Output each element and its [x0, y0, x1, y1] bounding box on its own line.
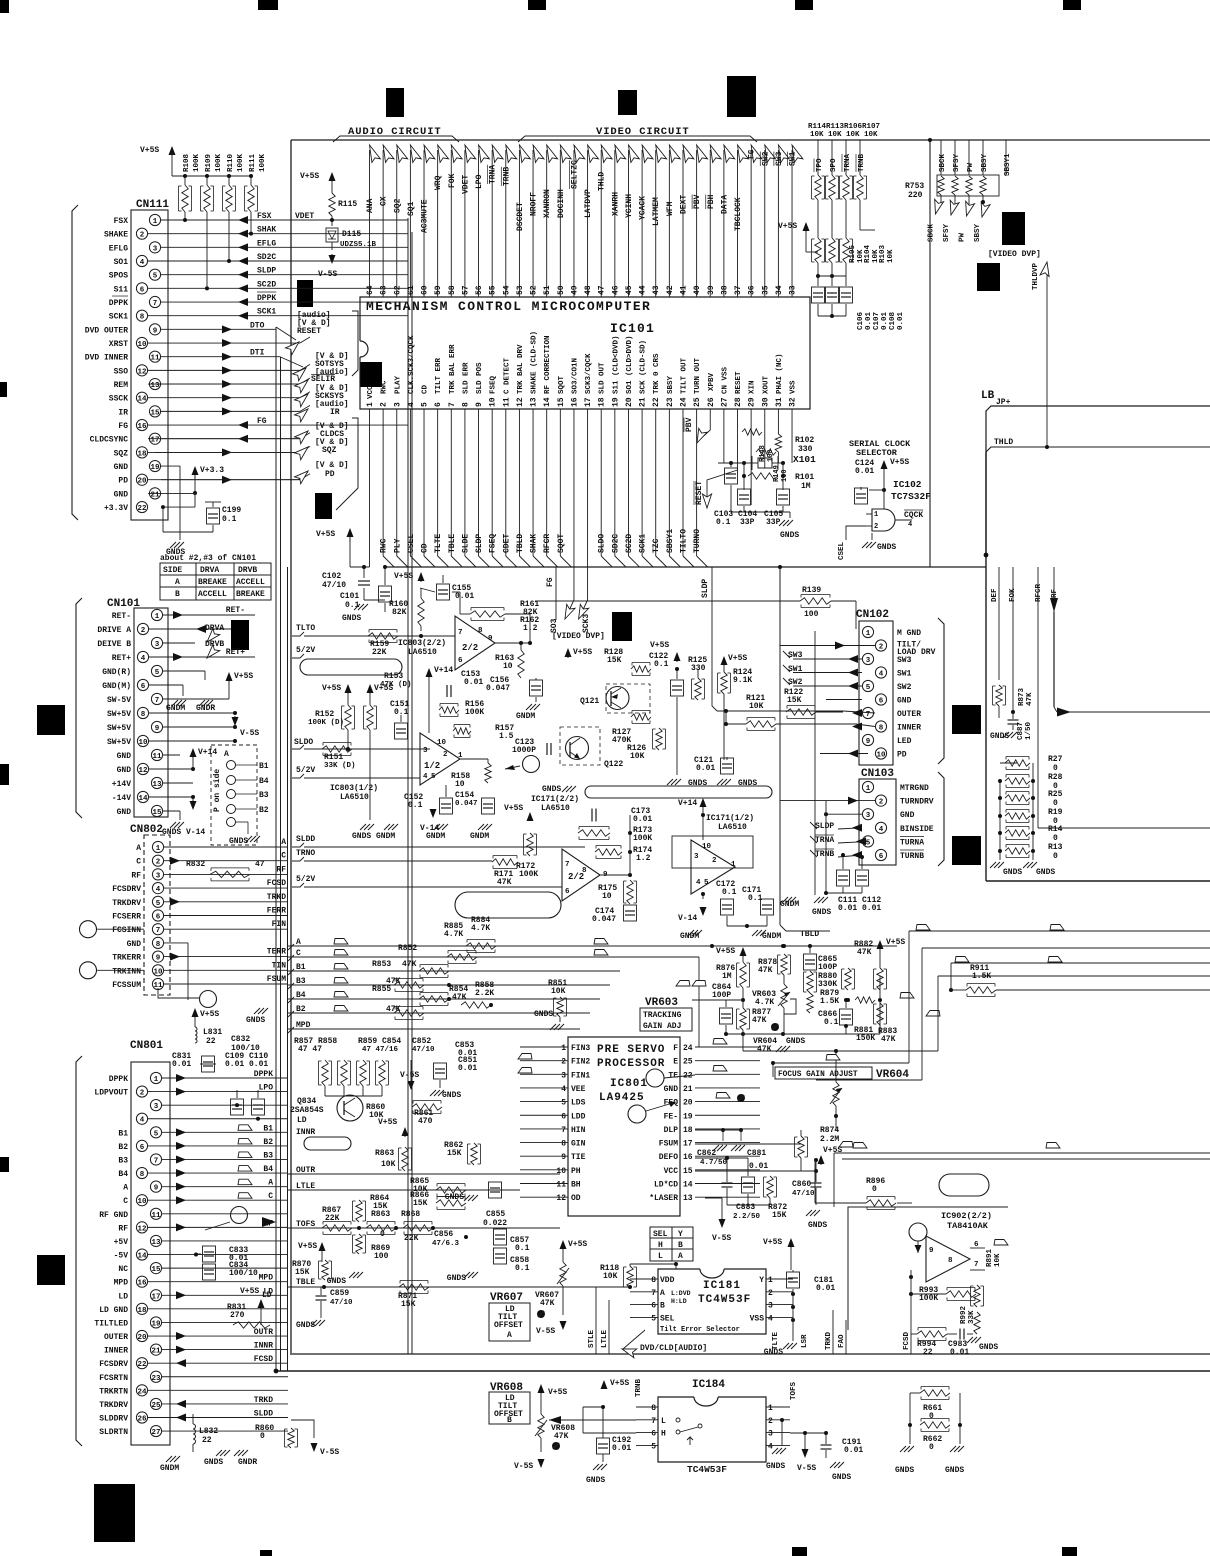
svg-text:14: 14 — [683, 1181, 693, 1190]
svg-text:MPD: MPD — [259, 1274, 274, 1283]
svg-text:11: 11 — [152, 753, 162, 761]
svg-text:14: 14 — [138, 795, 148, 803]
svg-text:RWC: RWC — [380, 538, 389, 553]
svg-text:24: 24 — [137, 1388, 147, 1396]
svg-text:VDET: VDET — [461, 175, 470, 194]
svg-text:V+5S: V+5S — [322, 684, 341, 693]
svg-text:1.5K: 1.5K — [972, 972, 991, 981]
svg-text:Q834: Q834 — [297, 1097, 316, 1106]
power V+5S at VCC — [349, 532, 351, 542]
svg-text:62: 62 — [393, 285, 402, 295]
svg-text:XIN: XIN — [749, 380, 757, 394]
svg-text:SO1: SO1 — [114, 258, 129, 267]
ground GNDS IC181 — [783, 1343, 789, 1349]
svg-text:4: 4 — [879, 826, 884, 834]
svg-text:RF CORRECTION: RF CORRECTION — [544, 335, 552, 394]
svg-text:OUTR: OUTR — [254, 1328, 273, 1337]
svg-text:V-5S: V-5S — [536, 1327, 555, 1336]
svg-text:VR604: VR604 — [876, 1069, 909, 1081]
svg-text:RFCR: RFCR — [543, 534, 552, 553]
svg-text:LDD: LDD — [571, 1112, 586, 1121]
resistor R151 33K — [322, 746, 352, 752]
svg-text:GND: GND — [664, 1085, 679, 1094]
svg-text:3: 3 — [561, 1071, 566, 1080]
svg-text:B: B — [678, 1241, 683, 1250]
svg-text:R102: R102 — [795, 436, 814, 445]
svg-text:33K (D): 33K (D) — [324, 762, 356, 770]
ground GNDS Q122 — [562, 786, 568, 792]
svg-text:10K: 10K — [551, 987, 566, 996]
svg-text:2: 2 — [380, 402, 389, 407]
svg-text:3: 3 — [154, 1103, 159, 1111]
test point circle below CN802 — [200, 991, 217, 1008]
svg-text:TRNA: TRNA — [489, 165, 498, 184]
resistors R661 R662 0 0 — [920, 1390, 950, 1396]
svg-text:SBSY: SBSY — [974, 223, 982, 242]
svg-text:FCSRTN: FCSRTN — [99, 1374, 128, 1383]
capacitor C104 33P — [738, 489, 751, 505]
svg-text:TERR: TERR — [267, 948, 286, 957]
svg-text:GNDS: GNDS — [542, 785, 561, 794]
svg-text:6: 6 — [141, 683, 146, 691]
svg-text:SFSY: SFSY — [943, 223, 951, 242]
svg-text:NROFF: NROFF — [530, 192, 539, 216]
wire pin1 VCC — [369, 409, 371, 567]
svg-text:E: E — [673, 1058, 678, 1067]
ic IC902 area box — [848, 1207, 1008, 1240]
svg-text:GNDM: GNDM — [166, 704, 185, 713]
svg-text:0: 0 — [1053, 764, 1058, 773]
svg-text:15: 15 — [150, 409, 160, 417]
svg-text:LPO: LPO — [259, 1084, 274, 1093]
svg-text:R13: R13 — [1048, 843, 1063, 852]
svg-text:12: 12 — [138, 767, 148, 775]
test point circle IC902 — [909, 1223, 927, 1241]
svg-text:13: 13 — [683, 1194, 693, 1203]
svg-text:TURNB: TURNB — [900, 852, 924, 861]
svg-text:DVD INNER: DVD INNER — [85, 354, 128, 363]
svg-text:R101: R101 — [795, 473, 814, 482]
power V+5S INNR — [404, 1131, 406, 1137]
svg-text:B3: B3 — [263, 1151, 273, 1160]
svg-text:L832: L832 — [199, 1427, 218, 1436]
svg-text:TZC: TZC — [652, 538, 661, 553]
svg-text:2: 2 — [879, 644, 884, 652]
svg-text:GNDS: GNDS — [352, 832, 371, 841]
svg-text:SCK3: SCK3 — [582, 614, 591, 633]
svg-text:43: 43 — [652, 285, 661, 295]
svg-text:A: A — [678, 1252, 683, 1261]
svg-text:about #2,#3 of CN101: about #2,#3 of CN101 — [160, 554, 256, 563]
ground GNDS IC102 — [871, 533, 873, 540]
svg-text:UDZS5.1B: UDZS5.1B — [340, 241, 377, 249]
svg-text:1: 1 — [366, 402, 375, 407]
svg-text:DRIVE A: DRIVE A — [97, 626, 131, 635]
svg-text:THLD: THLD — [598, 172, 607, 191]
svg-text:CD: CD — [422, 384, 430, 394]
svg-text:2: 2 — [561, 1058, 566, 1067]
svg-text:SLD OUT: SLD OUT — [599, 362, 607, 394]
svg-text:RF GND: RF GND — [99, 1211, 128, 1220]
svg-text:R151: R151 — [324, 753, 343, 762]
resistor R872 15K — [767, 1176, 773, 1198]
svg-text:SLD ERR: SLD ERR — [462, 362, 470, 394]
svg-text:330: 330 — [798, 445, 813, 454]
svg-text:C101: C101 — [340, 592, 359, 601]
svg-text:TC4W53F: TC4W53F — [687, 1464, 727, 1475]
svg-text:V+14: V+14 — [434, 666, 453, 675]
svg-text:7: 7 — [153, 300, 158, 308]
svg-text:[VIDEO DVP]: [VIDEO DVP] — [988, 250, 1041, 259]
svg-text:1: 1 — [768, 1276, 773, 1285]
svg-text:47/6.3: 47/6.3 — [432, 1240, 460, 1248]
wires pullups down to signals — [184, 212, 186, 220]
svg-text:7: 7 — [565, 861, 570, 869]
svg-text:13: 13 — [530, 397, 539, 407]
svg-text:4: 4 — [879, 671, 884, 679]
dashed box P on side — [211, 745, 257, 845]
wire vertical trunk x930 — [929, 140, 931, 567]
svg-text:10: 10 — [489, 397, 498, 407]
ground GNDS under C860 — [806, 1210, 812, 1216]
svg-text:SSCK: SSCK — [109, 395, 128, 404]
svg-text:GNDS: GNDS — [990, 732, 1009, 741]
svg-text:4.7K: 4.7K — [755, 998, 774, 1007]
svg-text:0.1: 0.1 — [654, 660, 669, 669]
svg-text:C860: C860 — [792, 1180, 811, 1189]
svg-text:SBSY: SBSY — [981, 153, 989, 172]
wires IC902 — [910, 1270, 912, 1340]
svg-text:20: 20 — [137, 478, 147, 486]
svg-text:GNDM: GNDM — [160, 1464, 179, 1473]
svg-text:B1: B1 — [263, 1124, 273, 1133]
svg-text:15K: 15K — [607, 656, 622, 665]
svg-text:6: 6 — [140, 286, 145, 294]
svg-text:A: A — [507, 1331, 512, 1340]
svg-text:SD2C: SD2C — [611, 534, 620, 553]
svg-text:47K: 47K — [554, 1432, 569, 1441]
svg-text:100: 100 — [374, 1252, 389, 1261]
svg-text:0.1: 0.1 — [824, 1018, 839, 1027]
svg-text:R149: R149 — [773, 465, 781, 482]
grounds GNDS pair Q121 — [667, 779, 673, 785]
svg-text:21: 21 — [639, 397, 648, 407]
svg-text:26: 26 — [137, 1416, 147, 1424]
svg-text:1: 1 — [156, 845, 161, 853]
svg-text:CDET: CDET — [502, 534, 511, 553]
svg-text:12: 12 — [137, 1225, 147, 1233]
svg-text:7: 7 — [156, 927, 161, 935]
svg-text:23: 23 — [666, 397, 675, 407]
svg-text:VCC: VCC — [367, 385, 375, 399]
svg-text:0.01: 0.01 — [881, 311, 889, 330]
svg-text:V-5S: V-5S — [318, 270, 337, 279]
svg-text:VDET: VDET — [295, 212, 314, 221]
svg-text:REM: REM — [114, 381, 129, 390]
svg-text:9: 9 — [866, 738, 871, 746]
svg-text:0.01 0.01: 0.01 0.01 — [838, 904, 881, 913]
gate IC102 — [872, 509, 895, 531]
svg-text:39: 39 — [707, 285, 716, 295]
svg-text:XOUT: XOUT — [762, 375, 770, 394]
svg-text:TRKERR: TRKERR — [112, 954, 141, 963]
svg-text:7: 7 — [448, 402, 457, 407]
svg-text:SLDDRV: SLDDRV — [99, 1415, 128, 1424]
svg-text:6: 6 — [561, 1112, 566, 1121]
svg-text:GNDS: GNDS — [342, 614, 361, 623]
svg-text:5: 5 — [431, 773, 436, 781]
svg-text:PW: PW — [959, 232, 967, 242]
svg-text:V-5S: V-5S — [514, 1462, 533, 1471]
svg-text:9: 9 — [475, 402, 484, 407]
svg-text:M GND: M GND — [897, 629, 921, 638]
svg-text:V+5S: V+5S — [504, 804, 523, 813]
svg-text:TRKD: TRKD — [254, 1396, 273, 1405]
svg-text:B: B — [175, 590, 180, 599]
svg-text:9: 9 — [156, 955, 161, 963]
svg-text:V+5S: V+5S — [240, 1287, 259, 1296]
wire main frame top — [291, 139, 1210, 141]
svg-text:47K: 47K — [497, 878, 512, 887]
svg-text:3: 3 — [153, 245, 158, 253]
svg-text:TBCLOCK: TBCLOCK — [734, 197, 743, 231]
svg-text:GNDM: GNDM — [376, 832, 395, 841]
ic IC181 TC4W53F — [658, 1269, 766, 1334]
svg-text:X101: X101 — [793, 454, 816, 465]
svg-text:A: A — [136, 844, 141, 853]
svg-text:4.7/50: 4.7/50 — [700, 1159, 728, 1167]
wire VR604 out — [773, 1062, 909, 1064]
arrow RF thick — [1050, 598, 1058, 612]
svg-text:LATMEM: LATMEM — [652, 197, 661, 226]
svg-text:58: 58 — [448, 285, 457, 295]
svg-text:DRVA: DRVA — [200, 566, 219, 575]
svg-text:B2: B2 — [259, 806, 269, 815]
svg-text:VR607: VR607 — [490, 1292, 523, 1304]
svg-text:B4: B4 — [259, 777, 269, 786]
svg-text:V+5S: V+5S — [548, 1388, 567, 1397]
arrows SBCK SFSY PW SBSY outputs — [937, 205, 942, 211]
svg-text:60: 60 — [421, 285, 430, 295]
svg-text:+5V: +5V — [114, 1238, 129, 1247]
wire bus trunk horizontal — [385, 566, 986, 568]
svg-text:33: 33 — [789, 285, 798, 295]
capacitor C156 0.047 — [530, 680, 543, 696]
wire bus y948 — [922, 947, 1210, 949]
svg-text:V-14: V-14 — [186, 828, 205, 837]
svg-text:TURNDRV: TURNDRV — [900, 798, 934, 807]
svg-text:GNDS: GNDS — [786, 1037, 805, 1046]
wires CN101 pins — [163, 614, 255, 616]
svg-text:0.01: 0.01 — [855, 467, 874, 476]
svg-text:4.7K: 4.7K — [444, 930, 463, 939]
svg-text:V+5S: V+5S — [140, 146, 159, 155]
svg-text:22: 22 — [206, 1037, 216, 1046]
svg-text:4: 4 — [407, 402, 416, 407]
svg-text:B2: B2 — [118, 1143, 128, 1152]
svg-text:SW1: SW1 — [897, 670, 912, 679]
svg-text:220: 220 — [908, 191, 923, 200]
stadium link D — [939, 1174, 989, 1196]
svg-text:GND: GND — [900, 811, 915, 820]
svg-text:SW2: SW2 — [761, 151, 770, 166]
stadium link A — [300, 659, 402, 675]
svg-text:22: 22 — [137, 505, 147, 513]
svg-text:V+5S: V+5S — [886, 938, 905, 947]
svg-text:Y: Y — [678, 1230, 683, 1239]
svg-text:A: A — [123, 1184, 128, 1193]
resistor R160 82K — [418, 598, 424, 626]
svg-text:8: 8 — [140, 1171, 145, 1179]
svg-text:1M: 1M — [722, 972, 732, 981]
ground GNDS IC902 — [967, 1337, 973, 1343]
svg-text:SELIR: SELIR — [311, 375, 335, 384]
svg-text:SBSY: SBSY — [667, 375, 675, 394]
svg-text:R153: R153 — [384, 672, 403, 681]
wire frame left inner — [287, 567, 289, 1371]
svg-text:OD: OD — [571, 1194, 581, 1203]
svg-text:R14: R14 — [1048, 825, 1063, 834]
svg-text:100K: 100K — [215, 153, 223, 172]
svg-text:SW-5V: SW-5V — [107, 696, 131, 705]
svg-text:0.01: 0.01 — [950, 1348, 969, 1357]
svg-text:0: 0 — [929, 1412, 934, 1421]
svg-text:12: 12 — [137, 368, 147, 376]
svg-text:1/50: 1/50 — [1025, 721, 1033, 740]
svg-text:56: 56 — [475, 285, 484, 295]
svg-text:DTI: DTI — [250, 349, 265, 358]
resistors R148 R149 100 — [742, 429, 762, 435]
wire pin26 XPBV PBV arrow — [709, 409, 711, 430]
svg-text:15: 15 — [152, 809, 162, 817]
wire pin27 CN VSS — [723, 409, 725, 463]
svg-text:47K: 47K — [857, 948, 872, 957]
svg-text:IC184: IC184 — [692, 1379, 725, 1391]
resistor R102 330 — [775, 434, 781, 452]
svg-text:21: 21 — [683, 1085, 693, 1094]
svg-text:8: 8 — [156, 941, 161, 949]
svg-text:55: 55 — [489, 285, 498, 295]
svg-text:R115: R115 — [338, 200, 357, 209]
wire main frame left — [290, 140, 292, 1355]
svg-text:27: 27 — [720, 397, 729, 407]
svg-text:17: 17 — [150, 437, 159, 445]
svg-text:TURN OUT: TURN OUT — [694, 357, 702, 394]
svg-text:C108: C108 — [889, 311, 897, 330]
black region lines mid — [567, 652, 569, 658]
resistor ladder R27 R28 R25 R19 R14 R13 — [1005, 760, 1030, 766]
svg-text:38: 38 — [720, 285, 729, 295]
svg-text:GIN: GIN — [571, 1140, 586, 1149]
svg-text:24: 24 — [683, 1044, 693, 1053]
svg-text:DSCDET: DSCDET — [516, 202, 525, 231]
svg-text:47K: 47K — [452, 993, 467, 1002]
svg-text:DEFO: DEFO — [659, 1153, 678, 1162]
arrow DVD CLD AUDIO — [621, 1345, 637, 1358]
svg-text:DOCINH: DOCINH — [557, 189, 566, 218]
svg-text:4: 4 — [768, 1314, 773, 1323]
svg-text:R868: R868 — [401, 1210, 420, 1219]
svg-text:V-14: V-14 — [678, 914, 697, 923]
wire vertical pair DTI — [280, 357, 282, 1371]
svg-text:47K: 47K — [757, 1045, 772, 1054]
svg-text:IR: IR — [330, 408, 340, 417]
capacitors on pins 3-4 — [231, 1099, 244, 1115]
svg-text:SW2: SW2 — [897, 683, 912, 692]
svg-text:V-5S: V-5S — [400, 1071, 419, 1080]
svg-text:0.01: 0.01 — [172, 1060, 191, 1069]
ic IC801 LA9425 box — [568, 1037, 680, 1216]
svg-text:GAIN ADJ: GAIN ADJ — [643, 1022, 681, 1031]
svg-text:FCSSUM: FCSSUM — [112, 981, 141, 990]
svg-text:LTLE: LTLE — [601, 1329, 609, 1348]
svg-text:5: 5 — [866, 839, 871, 847]
svg-text:1: 1 — [153, 218, 158, 226]
svg-text:2SA854S: 2SA854S — [290, 1106, 324, 1115]
svg-text:TRKD: TRKD — [267, 893, 286, 902]
svg-text:8: 8 — [948, 1257, 953, 1265]
svg-text:15K: 15K — [772, 1211, 787, 1220]
svg-text:GNDS: GNDS — [738, 779, 757, 788]
svg-text:19: 19 — [611, 397, 620, 407]
svg-text:GNDR: GNDR — [196, 704, 215, 713]
svg-text:TRKDRV: TRKDRV — [99, 1401, 128, 1410]
svg-text:TILT ERR: TILT ERR — [435, 357, 443, 394]
svg-text:0.1: 0.1 — [515, 1244, 530, 1253]
svg-text:6: 6 — [458, 657, 463, 665]
svg-text:V+5S: V+5S — [394, 572, 413, 581]
svg-text:33P: 33P — [766, 518, 781, 527]
bracket CN102 right — [938, 618, 944, 764]
svg-text:2.2/50: 2.2/50 — [733, 1213, 761, 1221]
svg-text:PLAY: PLAY — [394, 375, 402, 394]
svg-text:9: 9 — [153, 327, 158, 335]
svg-text:V+5S: V+5S — [200, 1010, 219, 1019]
svg-text:SHAKE (CLD-SD): SHAKE (CLD-SD) — [531, 331, 539, 394]
svg-text:-5V: -5V — [114, 1252, 129, 1261]
svg-text:0: 0 — [1053, 834, 1058, 843]
svg-text:D115: D115 — [342, 230, 361, 239]
svg-text:54: 54 — [502, 285, 511, 295]
svg-text:3: 3 — [768, 1302, 773, 1311]
wire bottom bus 2 — [276, 1370, 1210, 1372]
svg-text:2: 2 — [140, 232, 145, 240]
svg-text:OUTER: OUTER — [897, 710, 921, 719]
svg-text:BINSIDE: BINSIDE — [900, 825, 934, 834]
svg-text:[V & D]: [V & D] — [315, 461, 349, 470]
svg-text:8: 8 — [651, 1404, 656, 1413]
svg-text:R855: R855 — [372, 985, 391, 994]
svg-text:FCSD: FCSD — [254, 1355, 273, 1364]
svg-text:LD*CD: LD*CD — [654, 1181, 678, 1190]
svg-text:FCSDRV: FCSDRV — [112, 885, 141, 894]
svg-text:47K: 47K — [881, 1035, 896, 1044]
svg-text:SHAK: SHAK — [530, 534, 539, 553]
svg-text:R139: R139 — [802, 586, 821, 595]
svg-text:0.01: 0.01 — [897, 311, 905, 330]
svg-text:7: 7 — [651, 1417, 656, 1426]
svg-text:SQOT: SQOT — [557, 534, 566, 553]
svg-text:25: 25 — [683, 1058, 693, 1067]
svg-text:PD: PD — [897, 751, 907, 760]
svg-text:15K: 15K — [295, 1268, 310, 1277]
svg-text:C887: C887 — [1017, 722, 1025, 740]
svg-text:PH: PH — [571, 1167, 581, 1176]
junction dots TOFS — [357, 1226, 361, 1230]
svg-text:25: 25 — [693, 397, 702, 407]
resistor R115 — [331, 176, 333, 182]
svg-text:20: 20 — [137, 1334, 147, 1342]
